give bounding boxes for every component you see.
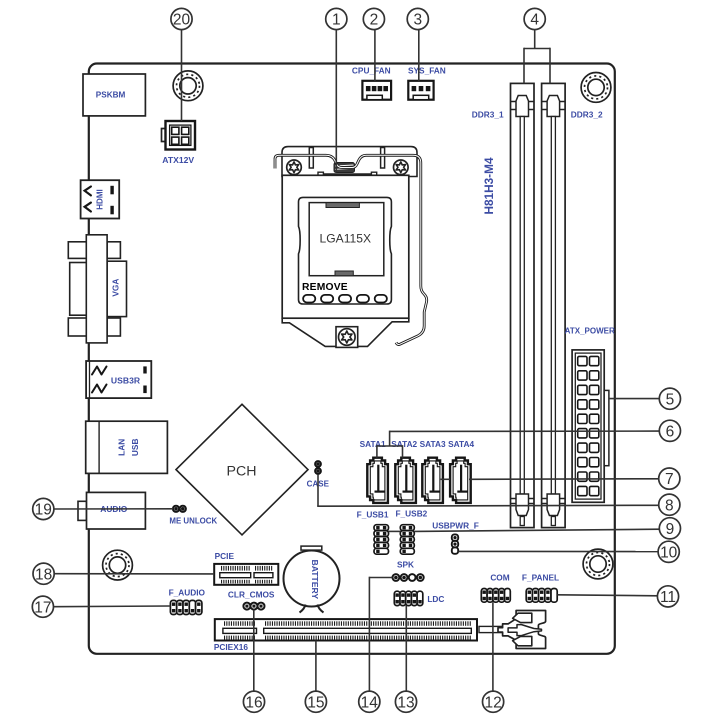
svg-text:F_USB2: F_USB2 bbox=[395, 508, 427, 518]
svg-text:USB3R: USB3R bbox=[111, 375, 141, 385]
wire leader 16 to CLR_CMOS bbox=[253, 610, 255, 692]
svg-text:ATX12V: ATX12V bbox=[162, 155, 194, 165]
svg-text:3: 3 bbox=[413, 12, 422, 29]
wire leader 15 to PCIEX16 bbox=[315, 641, 317, 692]
svg-text:ATX_POWER: ATX_POWER bbox=[565, 327, 615, 336]
svg-text:F_USB1: F_USB1 bbox=[357, 510, 389, 520]
svg-text:CPU_FAN: CPU_FAN bbox=[352, 65, 391, 75]
CPU socket LGA115X assembly bbox=[275, 147, 427, 348]
callout 7 bbox=[659, 468, 680, 489]
connector SATA1 bbox=[367, 458, 388, 503]
connector VGA bbox=[68, 235, 126, 343]
svg-text:19: 19 bbox=[35, 502, 52, 519]
callout 19 bbox=[33, 498, 54, 519]
svg-text:9: 9 bbox=[666, 521, 675, 538]
svg-text:SATA2: SATA2 bbox=[391, 439, 417, 449]
chip PCH bbox=[176, 404, 308, 535]
callout 12 bbox=[483, 691, 504, 712]
connector LAN USB bbox=[86, 421, 168, 473]
svg-text:14: 14 bbox=[361, 694, 379, 711]
callout 2 bbox=[363, 8, 384, 29]
callout 9 bbox=[659, 518, 680, 539]
callout 13 bbox=[395, 691, 416, 712]
connector AUDIO bbox=[78, 492, 145, 529]
svg-text:F_AUDIO: F_AUDIO bbox=[169, 588, 206, 598]
svg-text:PCH: PCH bbox=[227, 464, 257, 480]
wire leader 17 to F_AUDIO bbox=[53, 605, 170, 608]
callout 1 bbox=[326, 8, 347, 29]
header F_USB2 bbox=[400, 525, 414, 555]
callout 20 bbox=[171, 8, 192, 29]
svg-text:SYS_FAN: SYS_FAN bbox=[408, 65, 446, 75]
wire leader 13 to LDC bbox=[405, 606, 407, 692]
header F_PANEL bbox=[526, 589, 557, 603]
connector SATA3 bbox=[422, 458, 443, 503]
svg-text:HDMI: HDMI bbox=[95, 189, 104, 209]
svg-text:PCIEX16: PCIEX16 bbox=[214, 642, 249, 652]
header SPK bbox=[393, 574, 424, 581]
DIMM slot DDR3_2 bbox=[542, 83, 566, 527]
wire leader 2 to CPU_FAN bbox=[374, 30, 376, 81]
callout 10 bbox=[658, 541, 679, 562]
header F_AUDIO bbox=[170, 600, 202, 614]
svg-text:5: 5 bbox=[666, 391, 675, 408]
wire leader 3 to SYS_FAN bbox=[418, 30, 420, 81]
wire leader 18 to PCIE bbox=[54, 573, 214, 575]
PCIEX16 retention bracket bbox=[479, 611, 546, 649]
svg-text:6: 6 bbox=[666, 423, 675, 440]
connector SYS_FAN bbox=[408, 81, 433, 100]
svg-text:20: 20 bbox=[173, 12, 191, 29]
svg-text:1: 1 bbox=[332, 12, 341, 29]
wire leader 10 to USBPWR_F bbox=[458, 550, 658, 552]
svg-text:7: 7 bbox=[665, 471, 674, 488]
connector SATA2 bbox=[395, 458, 416, 503]
header COM bbox=[481, 589, 510, 603]
svg-text:SATA1: SATA1 bbox=[360, 439, 386, 449]
callout 11 bbox=[657, 586, 678, 607]
svg-text:2: 2 bbox=[370, 12, 379, 29]
header CLR_CMOS bbox=[243, 603, 264, 610]
svg-text:ME UNLOCK: ME UNLOCK bbox=[169, 516, 217, 525]
svg-text:4: 4 bbox=[530, 12, 539, 29]
svg-text:15: 15 bbox=[307, 694, 324, 711]
svg-text:10: 10 bbox=[660, 544, 678, 561]
connector ATX_POWER bbox=[572, 350, 609, 502]
wire leader 14 to SPK bbox=[369, 577, 392, 692]
callout 17 bbox=[32, 596, 53, 617]
svg-text:SPK: SPK bbox=[397, 560, 414, 570]
svg-text:18: 18 bbox=[35, 566, 52, 583]
connector ATX12V bbox=[162, 121, 196, 150]
wire leader 6 to SATA1/SATA2 bbox=[377, 431, 659, 458]
wire leader 19 to ME UNLOCK bbox=[54, 508, 173, 510]
svg-text:SATA4: SATA4 bbox=[448, 439, 474, 449]
callout 4 bbox=[524, 8, 545, 29]
svg-text:F_PANEL: F_PANEL bbox=[522, 573, 559, 583]
connector PSKBM bbox=[83, 74, 145, 116]
svg-text:PCIE: PCIE bbox=[215, 551, 235, 561]
wire leader 8 to CASE bbox=[317, 475, 659, 507]
wire leader 20 to ATX12V bbox=[181, 30, 183, 121]
callout 5 bbox=[659, 388, 680, 409]
callout 6 bbox=[659, 420, 680, 441]
callout 18 bbox=[33, 563, 54, 584]
svg-text:PSKBM: PSKBM bbox=[96, 91, 126, 100]
wire leader 11 to F_PANEL bbox=[557, 595, 657, 596]
wire leader 4 to DIMM slots bbox=[524, 30, 550, 84]
callout 3 bbox=[407, 8, 428, 29]
mounting hole bottom-left bbox=[103, 550, 133, 580]
header F_USB1 bbox=[374, 525, 389, 555]
battery bbox=[284, 546, 340, 612]
slot PCIE bbox=[214, 564, 278, 585]
mounting hole bottom-right bbox=[583, 549, 613, 579]
svg-text:11: 11 bbox=[660, 589, 676, 606]
header CASE bbox=[315, 461, 321, 474]
board outline bbox=[89, 64, 615, 654]
wire leader 9 to F_USB bbox=[389, 529, 660, 531]
svg-text:13: 13 bbox=[397, 694, 414, 711]
svg-text:16: 16 bbox=[245, 694, 262, 711]
callout 15 bbox=[305, 691, 326, 712]
svg-text:LAN: LAN bbox=[117, 439, 127, 456]
header USBPWR_F bbox=[452, 534, 458, 553]
svg-text:8: 8 bbox=[665, 497, 674, 514]
svg-text:USB: USB bbox=[130, 439, 140, 457]
slot PCIEX16 bbox=[215, 619, 477, 640]
svg-text:SATA3: SATA3 bbox=[420, 439, 446, 449]
mounting hole top-left bbox=[173, 71, 203, 101]
svg-text:DDR3_1: DDR3_1 bbox=[472, 109, 504, 119]
svg-text:LDC: LDC bbox=[427, 594, 444, 604]
svg-text:DDR3_2: DDR3_2 bbox=[571, 109, 603, 119]
callout 14 bbox=[359, 691, 380, 712]
wire leader 7 to SATA3/SATA4 bbox=[441, 478, 659, 481]
connector USB3R bbox=[86, 361, 151, 398]
wire leader 12 to COM bbox=[492, 602, 494, 691]
connector HDMI bbox=[81, 180, 120, 218]
svg-text:17: 17 bbox=[34, 599, 51, 616]
callout 8 bbox=[659, 494, 680, 515]
connector SATA4 bbox=[450, 458, 471, 503]
header LDC bbox=[394, 591, 423, 605]
mounting hole top-right bbox=[581, 73, 611, 103]
svg-text:H81H3-M4: H81H3-M4 bbox=[482, 157, 496, 214]
wire leader 5 to ATX_POWER bbox=[609, 398, 659, 400]
DIMM slot DDR3_1 bbox=[511, 83, 535, 527]
svg-text:LGA115X: LGA115X bbox=[320, 232, 372, 246]
svg-text:BATTERY: BATTERY bbox=[310, 559, 320, 599]
svg-text:USBPWR_F: USBPWR_F bbox=[432, 521, 479, 531]
header ME UNLOCK bbox=[173, 506, 186, 512]
svg-text:12: 12 bbox=[484, 694, 501, 711]
connector CPU_FAN bbox=[362, 81, 391, 100]
svg-text:CLR_CMOS: CLR_CMOS bbox=[228, 590, 275, 600]
svg-text:COM: COM bbox=[490, 573, 509, 583]
svg-text:VGA: VGA bbox=[111, 279, 121, 297]
wire leader 1 to LGA115X socket bbox=[335, 30, 337, 173]
svg-text:REMOVE: REMOVE bbox=[302, 282, 348, 293]
callout 16 bbox=[243, 691, 264, 712]
